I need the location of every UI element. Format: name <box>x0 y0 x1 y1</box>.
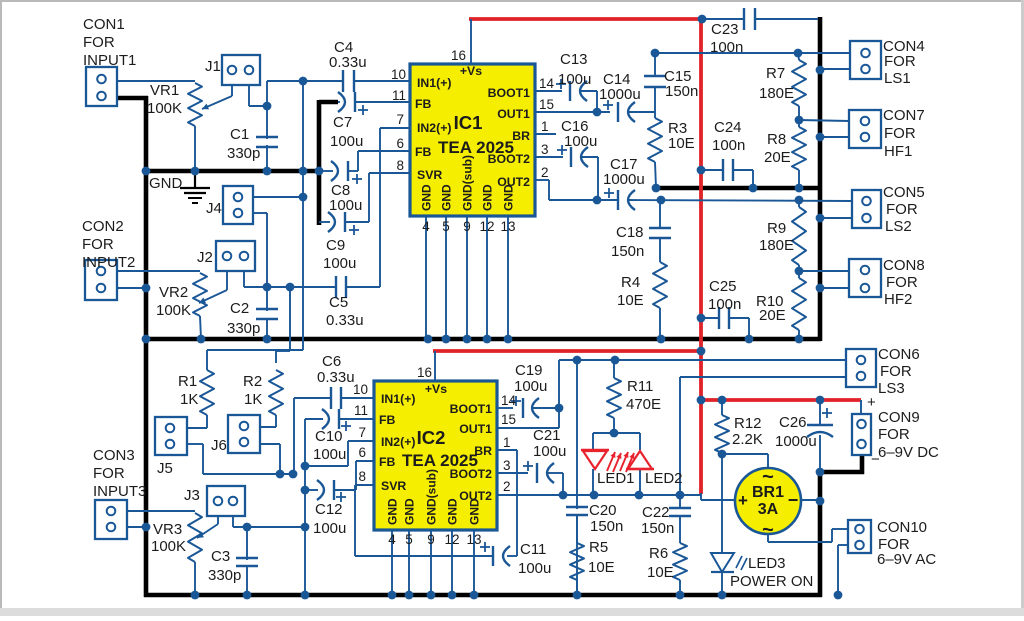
svg-text:LED3: LED3 <box>748 555 786 572</box>
svg-text:5: 5 <box>405 532 413 547</box>
svg-text:1: 1 <box>541 119 549 134</box>
svg-text:R2: R2 <box>243 373 262 390</box>
svg-text:FOR: FOR <box>886 274 918 291</box>
svg-text:100K: 100K <box>151 538 186 555</box>
svg-text:FOR: FOR <box>884 53 916 70</box>
svg-text:2.2K: 2.2K <box>732 431 763 448</box>
svg-text:20E: 20E <box>759 307 786 324</box>
svg-text:C1: C1 <box>230 126 249 143</box>
svg-text:+: + <box>867 394 876 411</box>
svg-text:7: 7 <box>396 112 404 127</box>
svg-text:CON8: CON8 <box>883 257 925 274</box>
svg-text:0.33u: 0.33u <box>326 312 364 329</box>
svg-text:FOR: FOR <box>884 125 916 142</box>
svg-text:FOR: FOR <box>93 465 125 482</box>
svg-text:0.33u: 0.33u <box>317 369 355 386</box>
svg-text:BOOT1: BOOT1 <box>450 402 493 416</box>
svg-text:IC1: IC1 <box>454 112 483 133</box>
svg-text:+Vs: +Vs <box>425 382 447 396</box>
svg-text:CON7: CON7 <box>883 107 925 124</box>
svg-text:GND: GND <box>440 184 454 211</box>
svg-text:100u: 100u <box>514 378 547 395</box>
svg-text:8: 8 <box>396 158 404 173</box>
svg-text:100n: 100n <box>712 137 745 154</box>
svg-text:R9: R9 <box>767 220 786 237</box>
svg-text:100u: 100u <box>330 133 363 150</box>
svg-text:4: 4 <box>422 219 430 234</box>
svg-text:100n: 100n <box>708 296 741 313</box>
svg-text:GND: GND <box>446 498 460 525</box>
svg-text:3A: 3A <box>758 501 779 518</box>
svg-text:BOOT1: BOOT1 <box>488 86 531 100</box>
svg-text:GND: GND <box>403 498 417 525</box>
svg-text:FOR: FOR <box>878 426 910 443</box>
svg-text:FOR: FOR <box>880 363 912 380</box>
svg-text:CON10: CON10 <box>877 519 927 536</box>
svg-text:LS3: LS3 <box>878 380 905 397</box>
svg-text:0.33u: 0.33u <box>329 54 367 71</box>
svg-text:C23: C23 <box>711 21 739 38</box>
svg-text:7: 7 <box>358 425 366 440</box>
svg-text:LS1: LS1 <box>884 70 911 87</box>
svg-text:C7: C7 <box>333 114 352 131</box>
svg-text:470E: 470E <box>626 396 661 413</box>
svg-text:C12: C12 <box>315 501 343 518</box>
svg-text:R5: R5 <box>589 539 608 556</box>
svg-text:C26: C26 <box>779 414 807 431</box>
svg-text:INPUT1: INPUT1 <box>83 52 136 69</box>
svg-text:6–9V DC: 6–9V DC <box>878 444 939 461</box>
svg-text:GND: GND <box>468 498 482 525</box>
svg-text:6: 6 <box>396 136 404 151</box>
svg-text:C11: C11 <box>520 541 546 558</box>
svg-text:GND: GND <box>481 184 495 211</box>
svg-text:VR1: VR1 <box>150 82 179 99</box>
svg-text:C5: C5 <box>329 294 348 311</box>
svg-text:15: 15 <box>501 412 516 427</box>
svg-text:11: 11 <box>392 88 406 103</box>
svg-text:C24: C24 <box>714 119 742 136</box>
svg-text:14: 14 <box>539 76 555 91</box>
svg-text:BR: BR <box>512 129 530 143</box>
svg-text:FOR: FOR <box>82 236 114 253</box>
svg-text:R4: R4 <box>621 274 640 291</box>
svg-text:CON5: CON5 <box>883 184 925 201</box>
svg-text:FB: FB <box>379 413 396 427</box>
svg-text:OUT1: OUT1 <box>497 107 530 121</box>
svg-text:+Vs: +Vs <box>460 64 482 78</box>
svg-text:100K: 100K <box>156 302 191 319</box>
svg-text:FB: FB <box>379 455 396 469</box>
svg-text:GND: GND <box>502 184 516 211</box>
svg-text:LED2: LED2 <box>645 470 683 487</box>
svg-text:330p: 330p <box>227 320 260 337</box>
svg-text:100u: 100u <box>313 520 346 537</box>
svg-text:INPUT3: INPUT3 <box>93 483 146 500</box>
svg-text:20E: 20E <box>764 149 791 166</box>
svg-text:INPUT2: INPUT2 <box>82 254 135 271</box>
svg-text:C6: C6 <box>322 353 341 370</box>
svg-text:J5: J5 <box>157 460 173 477</box>
svg-text:OUT1: OUT1 <box>459 422 492 436</box>
svg-text:1000u: 1000u <box>603 171 645 188</box>
svg-text:HF2: HF2 <box>884 291 912 308</box>
svg-text:150n: 150n <box>641 520 674 537</box>
svg-text:C3: C3 <box>211 548 230 565</box>
svg-text:180E: 180E <box>759 237 794 254</box>
svg-text:IC2: IC2 <box>417 427 446 448</box>
svg-text:POWER ON: POWER ON <box>730 573 813 590</box>
svg-text:R8: R8 <box>767 131 786 148</box>
svg-text:J4: J4 <box>206 200 222 217</box>
svg-text:1K: 1K <box>244 391 262 408</box>
svg-text:16: 16 <box>451 48 466 63</box>
svg-text:C22: C22 <box>642 504 670 521</box>
svg-text:6: 6 <box>358 445 366 460</box>
svg-text:10E: 10E <box>668 135 695 152</box>
svg-text:−: − <box>871 451 880 468</box>
svg-text:J6: J6 <box>211 437 227 454</box>
svg-text:GND: GND <box>420 184 434 211</box>
svg-text:R6: R6 <box>649 545 668 562</box>
svg-text:C20: C20 <box>589 502 617 519</box>
svg-text:C13: C13 <box>560 51 588 68</box>
svg-text:10E: 10E <box>647 564 674 581</box>
svg-text:GND(sub): GND(sub) <box>461 155 475 211</box>
svg-text:−: − <box>788 490 799 510</box>
svg-text:GND(sub): GND(sub) <box>425 469 439 525</box>
svg-text:C25: C25 <box>709 278 737 295</box>
svg-text:150n: 150n <box>665 83 698 100</box>
svg-text:1: 1 <box>503 435 511 450</box>
svg-text:180E: 180E <box>759 85 794 102</box>
svg-text:C21: C21 <box>533 427 561 444</box>
svg-text:VR3: VR3 <box>153 521 182 538</box>
svg-text:12: 12 <box>444 532 459 547</box>
svg-text:R12: R12 <box>734 415 762 432</box>
svg-text:13: 13 <box>466 532 481 547</box>
svg-text:C18: C18 <box>616 224 644 241</box>
svg-text:150n: 150n <box>590 518 623 535</box>
svg-text:C10: C10 <box>315 428 343 445</box>
svg-text:15: 15 <box>539 97 554 112</box>
svg-text:C9: C9 <box>326 237 345 254</box>
svg-text:1000u: 1000u <box>775 433 817 450</box>
svg-text:8: 8 <box>358 469 366 484</box>
svg-text:FOR: FOR <box>83 34 115 51</box>
svg-text:330p: 330p <box>227 145 260 162</box>
svg-text:FB: FB <box>415 97 432 111</box>
svg-text:100u: 100u <box>329 197 362 214</box>
svg-text:BOOT2: BOOT2 <box>450 467 493 481</box>
svg-text:BOOT2: BOOT2 <box>488 152 531 166</box>
svg-text:IN2(+): IN2(+) <box>381 435 416 449</box>
svg-text:100u: 100u <box>313 446 346 463</box>
svg-text:C2: C2 <box>230 300 249 317</box>
svg-text:11: 11 <box>354 403 368 418</box>
svg-text:CON6: CON6 <box>878 346 920 363</box>
svg-text:LED1: LED1 <box>597 470 635 487</box>
svg-text:100u: 100u <box>533 443 566 460</box>
svg-text:1000u: 1000u <box>599 86 641 103</box>
svg-text:100K: 100K <box>147 100 182 117</box>
svg-text:13: 13 <box>500 219 515 234</box>
svg-text:~: ~ <box>762 466 774 488</box>
svg-text:4: 4 <box>388 532 396 547</box>
svg-text:330p: 330p <box>208 567 241 584</box>
svg-text:9: 9 <box>463 219 471 234</box>
svg-text:IN2(+): IN2(+) <box>417 121 452 135</box>
svg-text:2: 2 <box>541 165 549 180</box>
svg-text:16: 16 <box>417 365 432 380</box>
svg-text:6–9V AC: 6–9V AC <box>877 551 936 568</box>
svg-text:J2: J2 <box>197 249 213 266</box>
svg-text:10: 10 <box>353 382 368 397</box>
svg-text:SVR: SVR <box>381 479 406 493</box>
svg-text:BR: BR <box>474 444 492 458</box>
svg-text:R7: R7 <box>766 65 785 82</box>
svg-text:CON2: CON2 <box>82 218 124 235</box>
svg-text:100n: 100n <box>710 39 743 56</box>
svg-text:GND: GND <box>149 175 183 192</box>
svg-text:~: ~ <box>762 519 774 541</box>
svg-text:SVR: SVR <box>417 168 442 182</box>
svg-text:5: 5 <box>442 219 450 234</box>
svg-text:2: 2 <box>503 479 511 494</box>
svg-text:10: 10 <box>391 67 406 82</box>
svg-text:100u: 100u <box>323 255 356 272</box>
svg-text:3: 3 <box>503 458 511 473</box>
svg-text:10E: 10E <box>617 292 644 309</box>
svg-text:IN1(+): IN1(+) <box>381 392 416 406</box>
svg-text:LS2: LS2 <box>885 218 912 235</box>
svg-text:HF1: HF1 <box>884 143 912 160</box>
svg-text:150n: 150n <box>611 243 644 260</box>
svg-text:9: 9 <box>427 532 435 547</box>
svg-text:CON1: CON1 <box>83 16 125 33</box>
svg-text:+: + <box>738 491 748 510</box>
svg-text:100u: 100u <box>564 133 597 150</box>
svg-text:R11: R11 <box>627 378 653 395</box>
svg-text:R1: R1 <box>178 373 197 390</box>
svg-text:C19: C19 <box>515 362 543 379</box>
svg-text:CON3: CON3 <box>93 447 135 464</box>
svg-text:100u: 100u <box>558 71 591 88</box>
svg-text:100u: 100u <box>518 560 551 577</box>
svg-text:12: 12 <box>479 219 494 234</box>
svg-text:1K: 1K <box>180 391 198 408</box>
svg-text:FOR: FOR <box>886 201 918 218</box>
svg-text:IN1(+): IN1(+) <box>417 76 452 90</box>
svg-text:GND: GND <box>386 498 400 525</box>
svg-text:J3: J3 <box>184 487 200 504</box>
svg-text:J1: J1 <box>205 58 221 75</box>
svg-text:VR2: VR2 <box>159 284 188 301</box>
svg-text:10E: 10E <box>588 559 615 576</box>
svg-text:14: 14 <box>501 393 517 408</box>
svg-text:FB: FB <box>415 145 432 159</box>
svg-text:CON9: CON9 <box>878 409 920 426</box>
svg-text:3: 3 <box>541 142 549 157</box>
